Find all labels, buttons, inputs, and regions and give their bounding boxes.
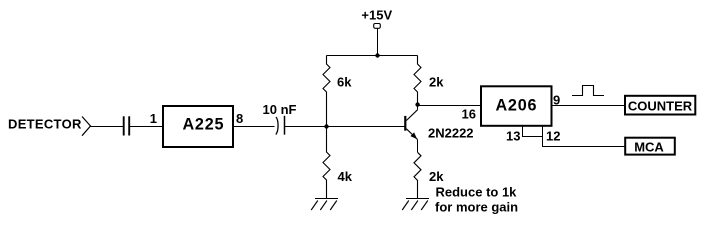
svg-text:Reduce to 1k: Reduce to 1k: [436, 184, 518, 199]
svg-text:2N2222: 2N2222: [428, 126, 474, 141]
resistor R3 4k: [323, 127, 330, 199]
wire connector to C1: [90, 126, 123, 128]
junction dot base node: [324, 124, 328, 128]
svg-text:12: 12: [546, 129, 560, 144]
wire C1 to U1 pin 1: [130, 126, 163, 128]
block COUNTER: [625, 96, 695, 115]
wire U2 pin 9 to COUNTER: [553, 105, 626, 107]
block MCA: [625, 138, 675, 155]
svg-text:8: 8: [236, 111, 243, 126]
amplifier U2 A206: [481, 86, 552, 126]
svg-text:1: 1: [150, 111, 157, 126]
pulse waveform symbol: [572, 86, 604, 96]
wire pin 13 to pin 12 tie: [522, 136, 543, 138]
resistor R4 2k emitter: [414, 152, 421, 198]
svg-text:+15V: +15V: [361, 8, 392, 23]
ground right: [402, 199, 429, 211]
transistor Q1 2N2222: [405, 105, 417, 153]
svg-text:16: 16: [462, 107, 476, 122]
junction dot collector node: [415, 102, 419, 106]
wire collector node to U2 pin 16: [418, 105, 482, 107]
wire C2 to base node and Q1 base: [285, 126, 405, 128]
svg-text:COUNTER: COUNTER: [628, 98, 693, 113]
svg-text:2k: 2k: [429, 75, 444, 90]
junction dot supply rail: [375, 53, 379, 57]
svg-text:13: 13: [506, 129, 520, 144]
amplifier U1 A225: [163, 106, 233, 147]
power terminal +15V: [374, 24, 381, 56]
svg-text:for more gain: for more gain: [435, 199, 518, 214]
capacitor C1: [124, 116, 130, 135]
capacitor C2 10 nF: [276, 116, 285, 135]
svg-text:A225: A225: [182, 116, 224, 134]
svg-text:MCA: MCA: [634, 139, 664, 154]
svg-text:6k: 6k: [337, 75, 352, 90]
wire supply rail: [327, 55, 418, 57]
svg-text:DETECTOR: DETECTOR: [8, 117, 82, 132]
connector J1 detector input: [82, 117, 91, 136]
ground left: [311, 199, 338, 211]
pin 13 stub: [522, 126, 524, 137]
svg-text:10 nF: 10 nF: [263, 102, 297, 117]
svg-text:2k: 2k: [429, 169, 444, 184]
resistor R2 2k collector: [414, 56, 421, 105]
svg-text:4k: 4k: [338, 169, 353, 184]
wire pin 12 to MCA: [542, 146, 625, 148]
wire U1 pin 8 to C2: [234, 126, 275, 128]
resistor R1 6k: [323, 56, 330, 127]
pin 12 stub: [542, 126, 544, 147]
svg-text:A206: A206: [495, 97, 537, 115]
